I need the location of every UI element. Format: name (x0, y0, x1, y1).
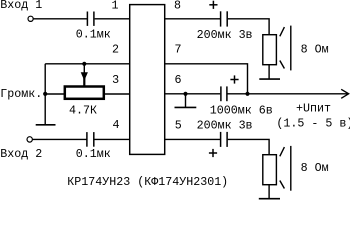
svg-text:200мк 3в: 200мк 3в (197, 28, 253, 42)
svg-text:8: 8 (174, 0, 181, 13)
svg-text:1000мк 6в: 1000мк 6в (210, 104, 273, 118)
svg-text:(1.5 - 5 в): (1.5 - 5 в) (276, 117, 350, 131)
ground pot column (36, 124, 56, 126)
wire wiper tip to pot (83, 78, 85, 87)
arrow +Uпит (341, 89, 348, 98)
svg-text:6: 6 (175, 73, 182, 87)
input terminal 1 (28, 16, 33, 21)
capacitor C3 200мк 3в plates (220, 11, 222, 26)
svg-text:0.1мк: 0.1мк (76, 28, 111, 42)
wire pin 7 to supply node (165, 64, 248, 94)
svg-text:1: 1 (112, 0, 119, 12)
svg-text:200мк 3в: 200мк 3в (197, 119, 253, 133)
op-amp IC U1 body (130, 5, 165, 155)
capacitor C4 1000мк 6в plates (220, 86, 222, 101)
svg-text:3: 3 (112, 73, 119, 87)
wire supply rail to +Uпит (228, 93, 349, 95)
capacitor C5 polarity plus (209, 152, 217, 154)
svg-text:5: 5 (175, 118, 182, 132)
potentiometer R1 wiper arrow (81, 72, 88, 80)
junction wiper on pin2 wire (82, 62, 86, 66)
speaker LS2 cone lines (280, 147, 285, 156)
ground speaker 2 (268, 185, 270, 199)
wire C2 to pin 4 (95, 138, 130, 140)
wire C5 to speaker 2 (228, 139, 269, 154)
svg-text:КР174УН23 (КФ174УН2301): КР174УН23 (КФ174УН2301) (67, 175, 228, 189)
wire terminal2 to C2 (33, 138, 87, 140)
svg-text:4: 4 (113, 118, 120, 132)
junction supply node (245, 92, 249, 96)
junction volume node (43, 92, 47, 96)
svg-text:7: 7 (175, 42, 182, 56)
svg-text:4.7К: 4.7К (69, 104, 97, 118)
wire pin 8 to C3 (165, 18, 221, 20)
potentiometer R1 body (65, 87, 104, 99)
svg-text:Вход 1: Вход 1 (0, 0, 42, 12)
svg-text:0.1мк: 0.1мк (76, 147, 111, 161)
junction ground on pin 6 wire (183, 92, 187, 96)
wire pin 2 to volume node (45, 63, 130, 65)
wire pin 6 to C4 (165, 93, 221, 95)
svg-text:+Uпит: +Uпит (296, 101, 331, 115)
wire volume node to pot left (45, 93, 64, 95)
wire wiper stem (83, 64, 85, 73)
wire terminal1 to C1 (33, 18, 87, 20)
svg-text:Вход 2: Вход 2 (0, 147, 42, 161)
svg-text:2: 2 (112, 43, 119, 57)
capacitor C4 polarity plus (230, 79, 238, 81)
svg-text:8 Ом: 8 Ом (301, 161, 329, 175)
wire C1 to pin 1 (95, 18, 130, 20)
capacitor C5 200мк 3в plates (220, 132, 222, 147)
input terminal 2 (27, 137, 32, 142)
capacitor C3 polarity plus (209, 4, 217, 6)
capacitor C1 0.1мк plates (86, 12, 88, 26)
svg-text:8 Ом: 8 Ом (301, 43, 329, 57)
ground pin 6 (185, 94, 187, 108)
wire vertical volume column (44, 64, 46, 125)
capacitor C2 0.1мк plates (86, 132, 88, 147)
wire pin 5 to C5 (165, 138, 221, 140)
svg-text:Громк.: Громк. (0, 87, 42, 101)
speaker LS1 body (263, 35, 277, 65)
wire pot right to pin 3 (105, 93, 130, 95)
speaker LS2 body (263, 155, 277, 185)
ground speaker 1 (268, 65, 270, 79)
speaker LS1 cone lines (280, 27, 285, 36)
wire C3 to speaker 1 (228, 19, 269, 35)
